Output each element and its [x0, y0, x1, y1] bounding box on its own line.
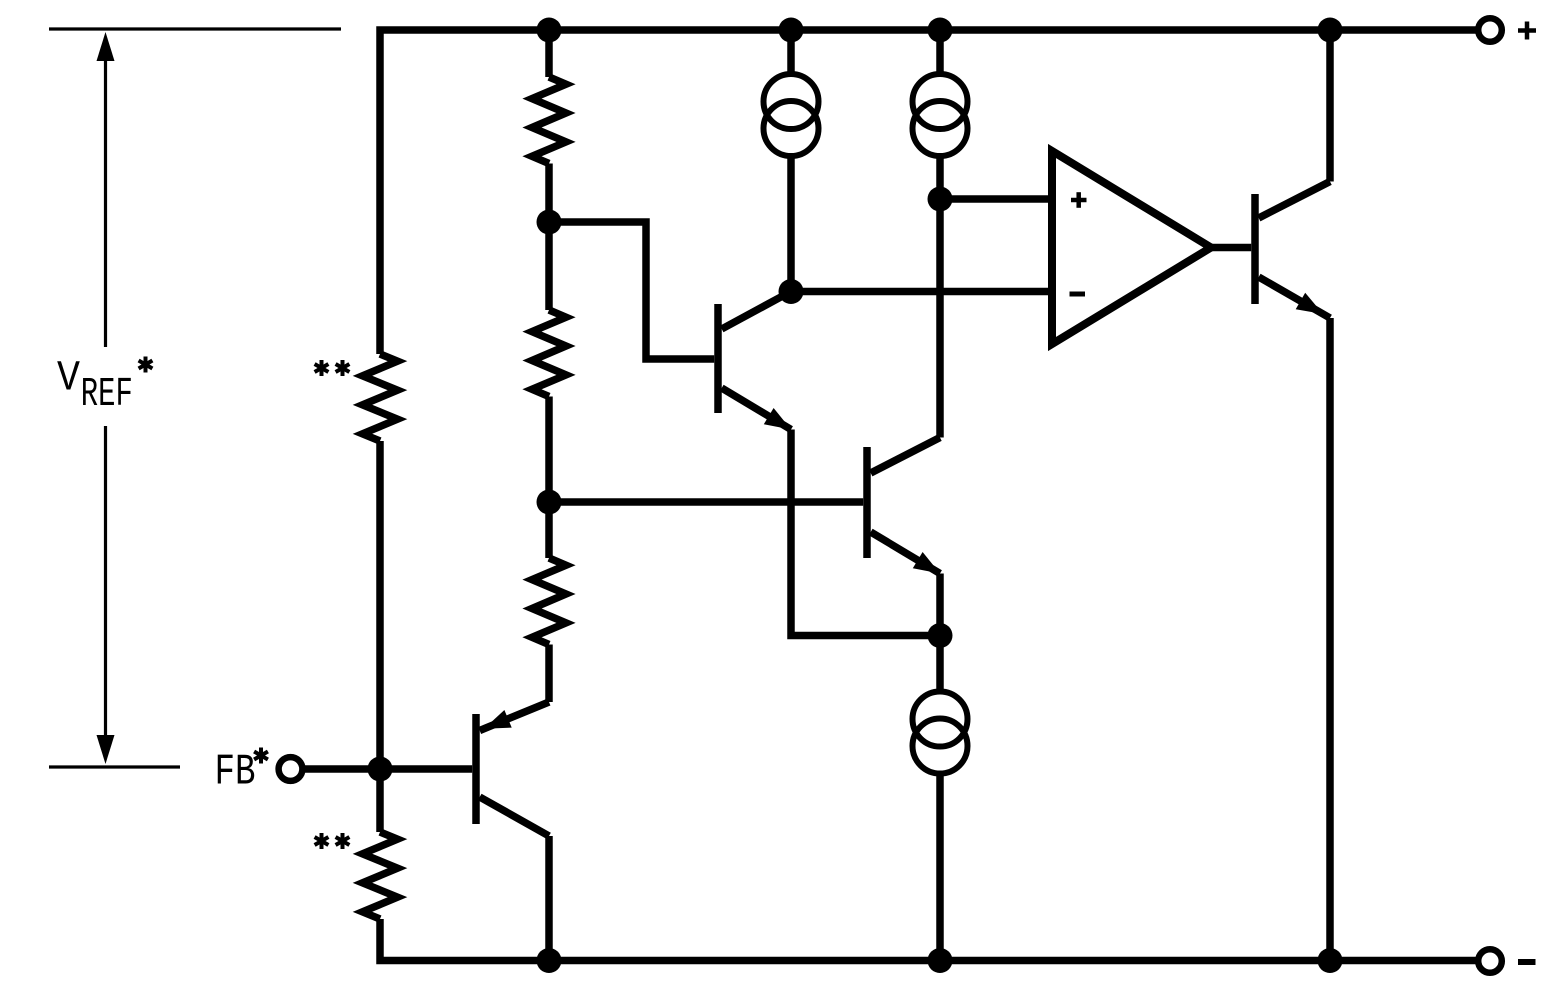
- wire inverting input from node C to op-amp: [791, 288, 1052, 296]
- Q4 emitter arrowhead: [1296, 293, 1323, 314]
- current source I1 top lead: [787, 30, 795, 75]
- wire Q1 collector diagonal to node C: [722, 292, 791, 330]
- wire left vertical mid segment: [376, 441, 384, 832]
- wire Q4 collector up to top rail: [1326, 30, 1334, 182]
- wire Q1 emitter diagonal: [722, 388, 791, 430]
- svg-text:V: V: [57, 354, 80, 403]
- current source I3 circles: [913, 692, 968, 747]
- svg-text:REF: REF: [81, 372, 133, 418]
- transistor Q2 base bar: [863, 447, 871, 558]
- node A (R1/R2 tap): [537, 210, 562, 235]
- wire Q2 collector diagonal: [871, 438, 940, 474]
- wire Q1 emitter down and across to node D: [791, 430, 940, 636]
- label + at terminal: [1518, 22, 1536, 40]
- resistor R1 (top of center string): [532, 77, 566, 164]
- current source I2 circles: [913, 74, 968, 129]
- label - at terminal: [1518, 959, 1536, 965]
- VREF dimension top tick: [49, 27, 341, 30]
- wire Q4 collector diagonal: [1259, 182, 1330, 219]
- wire Q1 base jog from node A: [549, 222, 714, 359]
- wire top rail from left vertical to + terminal: [380, 30, 1477, 354]
- transistor Q4 base bar: [1251, 194, 1259, 304]
- junction node on top rail at Q4 collector: [1318, 18, 1343, 43]
- resistor R2 (middle of center string): [532, 310, 566, 397]
- wire I3 to bottom rail: [936, 774, 944, 961]
- asterisk pair ** beside R4: [315, 360, 350, 376]
- wire Q2 emitter down to node D: [936, 574, 944, 636]
- wire Q4 emitter diagonal: [1259, 277, 1330, 318]
- junction node on bottom rail at I3: [928, 948, 953, 973]
- VREF dimension bottom tick: [49, 765, 180, 768]
- wire I1 to node C: [787, 156, 795, 292]
- wire FB terminal to node F: [303, 765, 380, 773]
- node F (FB junction): [368, 757, 393, 782]
- terminal - (cathode) open circle: [1478, 949, 1502, 973]
- current source I2 top lead: [936, 30, 944, 75]
- svg-text:FB: FB: [215, 748, 256, 798]
- transistor Q3 base bar: [472, 714, 480, 824]
- VREF dimension line lower: [104, 426, 107, 736]
- wire center branch top lead: [545, 30, 553, 77]
- resistor ** R5 (lower divider resistor): [363, 832, 398, 919]
- wire Q3 base from node F: [380, 765, 472, 773]
- node B (R2/R3 tap, Q2 base): [537, 490, 562, 515]
- resistor R3 (bottom of center string): [532, 558, 566, 645]
- junction node on top rail at center branch: [537, 18, 562, 43]
- junction node on top rail at I1: [779, 18, 804, 43]
- node C (Q1 collector / op-amp - input): [779, 279, 804, 304]
- wire node D to current source I3: [936, 636, 944, 692]
- wire Q2 emitter diagonal: [871, 532, 940, 574]
- wire non-inverting input from node E to op-amp: [940, 195, 1052, 203]
- op-amp + input label: [1071, 192, 1087, 208]
- junction node on top rail at I2: [928, 18, 953, 43]
- node E (I2 / op-amp + input): [928, 187, 953, 212]
- asterisk pair ** beside R5: [315, 833, 350, 849]
- wire Q2 base from node B: [549, 498, 863, 506]
- asterisk after VREF: [139, 357, 153, 373]
- VREF dimension line upper: [104, 57, 107, 347]
- wire Q3 collector down to bottom rail: [545, 836, 553, 961]
- Q2 emitter arrowhead: [913, 552, 940, 574]
- VREF dimension arrowhead down: [97, 735, 115, 764]
- terminal FB open circle: [279, 757, 303, 781]
- wire Q3 collector diagonal: [480, 797, 549, 836]
- transistor Q1 base bar: [714, 304, 722, 413]
- Q3 emitter arrowhead: [484, 710, 512, 729]
- current source I1 circles: [764, 74, 819, 129]
- terminal + (anode) open circle: [1478, 18, 1502, 42]
- junction node on bottom rail at Q4 emitter: [1318, 948, 1343, 973]
- wire R1 to node A: [545, 164, 553, 311]
- junction node on bottom rail at Q3 collector: [537, 948, 562, 973]
- Q1 emitter arrowhead: [764, 408, 791, 430]
- node D (Q1/Q2 emitters / I3): [928, 623, 953, 648]
- op-amp U1 triangle: [1052, 151, 1211, 344]
- wire Q4 emitter down to bottom rail: [1326, 318, 1334, 961]
- wire left vertical bottom segment and bottom rail to - terminal: [380, 919, 1477, 961]
- wire op-amp output to Q4 base: [1211, 244, 1251, 252]
- op-amp - input label: [1070, 292, 1086, 297]
- wire Q3 emitter diagonal from R3: [480, 702, 549, 731]
- resistor ** R4 (upper divider resistor): [363, 354, 398, 441]
- wire R2 to node B: [545, 397, 553, 559]
- wire R3 to Q3 emitter: [545, 645, 553, 703]
- wire node E down to Q2 collector: [936, 199, 944, 438]
- wire I2 to node E: [936, 156, 944, 200]
- asterisk after FB: [254, 748, 268, 764]
- VREF dimension arrowhead up: [97, 32, 115, 61]
